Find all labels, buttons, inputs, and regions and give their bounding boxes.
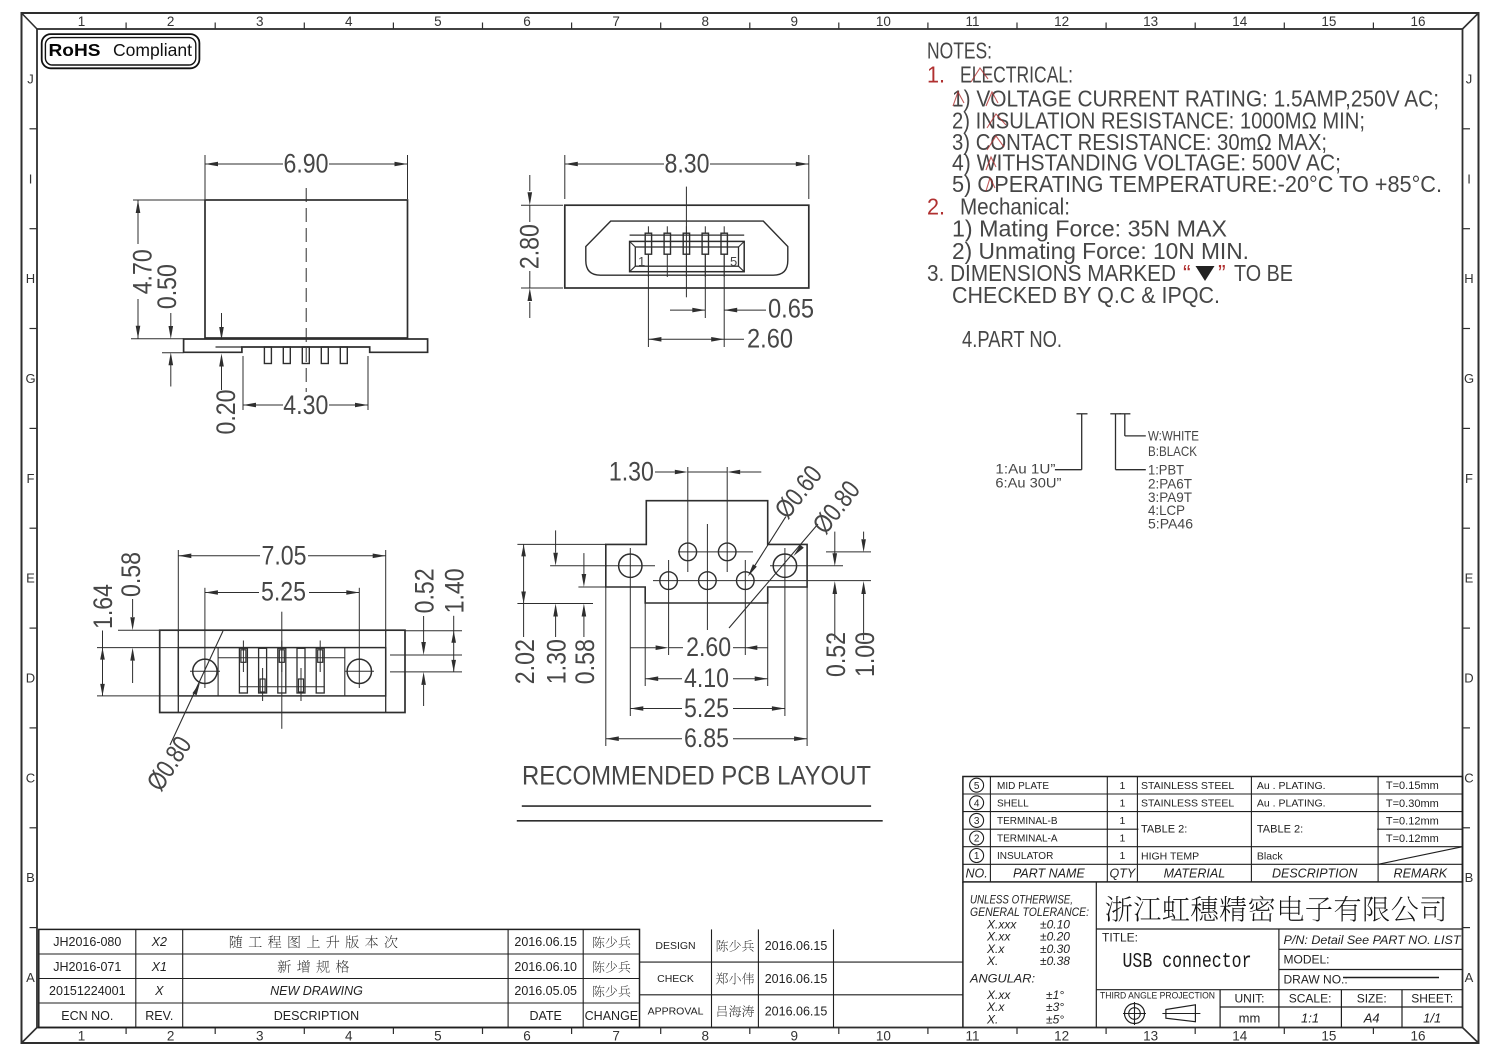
svg-text:C: C	[26, 770, 35, 785]
svg-text:NOTES:: NOTES:	[927, 37, 992, 63]
svg-text:THIRD ANGLE PROJECTION: THIRD ANGLE PROJECTION	[1100, 991, 1215, 1002]
parts table row 5 MID PLATE	[970, 778, 984, 792]
svg-text:MID PLATE: MID PLATE	[997, 781, 1049, 792]
svg-text:8: 8	[701, 1029, 709, 1044]
bottom view mounting hole centerlines	[204, 588, 206, 688]
svg-text:mm: mm	[1239, 1011, 1261, 1026]
svg-text:REV.: REV.	[145, 1009, 173, 1023]
top view tongue outer rect	[630, 241, 745, 271]
part number tree connector to material codes	[1116, 469, 1146, 471]
svg-text:5.25: 5.25	[684, 693, 729, 723]
bottom view pin cross lines	[218, 657, 345, 659]
dimension 0.58 pcb	[583, 553, 585, 574]
svg-text:1: 1	[78, 1029, 86, 1044]
svg-text:4.PART NO.: 4.PART NO.	[962, 326, 1062, 352]
svg-text:STAINLESS STEEL: STAINLESS STEEL	[1141, 798, 1234, 810]
svg-text:W:WHITE: W:WHITE	[1148, 428, 1199, 444]
dimension 1.00	[863, 532, 865, 540]
bottom view right mounting hole	[347, 659, 371, 683]
svg-text:NO.: NO.	[965, 867, 987, 881]
dimension 0.58 bottom view	[132, 599, 134, 617]
dimension 8.30 extension lines	[564, 155, 566, 199]
svg-text:MATERIAL: MATERIAL	[1164, 867, 1226, 881]
svg-text:UNIT:: UNIT:	[1235, 992, 1265, 1006]
svg-text:NEW DRAWING: NEW DRAWING	[270, 984, 363, 998]
svg-text:P/N: Detail See PART NO. LIST: P/N: Detail See PART NO. LIST	[1284, 933, 1463, 947]
svg-text:6: 6	[523, 1029, 531, 1044]
svg-text:MODEL:: MODEL:	[1284, 953, 1330, 967]
svg-text:14: 14	[1232, 14, 1248, 29]
dimension 1.64	[102, 631, 104, 696]
svg-text:X.: X.	[986, 1012, 998, 1026]
svg-text:4: 4	[345, 1029, 353, 1044]
svg-text:12: 12	[1054, 14, 1069, 29]
part number tree connector to color codes	[1125, 435, 1146, 437]
svg-text:Black: Black	[1257, 850, 1283, 862]
svg-text:G: G	[25, 371, 35, 386]
svg-text:3: 3	[256, 14, 264, 29]
pcb crosshair horizontals	[678, 551, 753, 553]
svg-text:13: 13	[1143, 14, 1158, 29]
bottom view inner side walls full height	[177, 630, 179, 712]
bottom view inner outline	[178, 648, 385, 696]
svg-text:APPROVAL: APPROVAL	[648, 1006, 704, 1018]
svg-text:0.65: 0.65	[768, 294, 814, 324]
svg-text:T=0.30mm: T=0.30mm	[1386, 798, 1439, 810]
diameter 0.80 leader pcb	[729, 524, 818, 628]
pcb crosshair verticals	[629, 548, 631, 716]
top view pins	[645, 233, 651, 254]
top view tongue inner rect	[635, 247, 738, 266]
border row ticks	[30, 128, 38, 130]
svg-text:ELECTRICAL:: ELECTRICAL:	[960, 61, 1073, 87]
svg-text:TO BE: TO BE	[1234, 260, 1293, 286]
dimension 0.52 bottom view extension lines	[390, 654, 462, 656]
svg-text:DESCRIPTION: DESCRIPTION	[1272, 867, 1358, 881]
svg-text:16: 16	[1410, 14, 1425, 29]
svg-text:11: 11	[965, 14, 979, 29]
svg-text:6:Au 30U”: 6:Au 30U”	[995, 474, 1061, 490]
pcb left extension lines	[517, 543, 606, 545]
svg-text:8: 8	[701, 14, 709, 29]
top view tongue corner bevels	[630, 241, 636, 247]
svg-text:6.90: 6.90	[284, 148, 329, 178]
pcb outline extension verticals	[644, 603, 646, 686]
svg-text:1: 1	[1119, 833, 1125, 845]
dimension 6.90 extension lines	[204, 155, 206, 199]
svg-text:1: 1	[638, 254, 645, 269]
svg-text:9: 9	[791, 14, 799, 29]
top view receptacle cavity outline	[586, 221, 788, 275]
svg-text:A4: A4	[1363, 1011, 1380, 1026]
top view shell outline	[565, 205, 809, 288]
dimension 0.20	[221, 313, 223, 327]
svg-text:6.85: 6.85	[684, 723, 729, 753]
svg-text:8.30: 8.30	[665, 148, 710, 178]
svg-text:1:1: 1:1	[1301, 1011, 1319, 1026]
parts table insulator remark diagonal	[1378, 847, 1462, 865]
svg-text:5: 5	[434, 14, 442, 29]
pcb pad holes bottom row	[660, 572, 678, 590]
diameter 0.60 leader	[751, 517, 786, 573]
svg-text:TERMINAL-A: TERMINAL-A	[997, 834, 1058, 845]
svg-text:ECN NO.: ECN NO.	[61, 1009, 113, 1023]
svg-text:2.60: 2.60	[686, 632, 731, 662]
svg-text:2.02: 2.02	[510, 639, 540, 684]
svg-text:DESCRIPTION: DESCRIPTION	[274, 1009, 359, 1023]
svg-text:1.40: 1.40	[440, 568, 470, 613]
svg-text:H: H	[1464, 271, 1473, 286]
bottom view pin cavity walls	[217, 648, 219, 696]
pcb left mounting hole	[619, 554, 642, 577]
svg-text:JH2016-080: JH2016-080	[53, 935, 121, 949]
svg-text:7: 7	[612, 1029, 620, 1044]
dimension 7.05	[178, 555, 260, 557]
svg-text:0.20: 0.20	[211, 390, 241, 435]
svg-text:Au . PLATING.: Au . PLATING.	[1257, 798, 1326, 810]
svg-text:B:BLACK: B:BLACK	[1148, 443, 1198, 459]
svg-text:2: 2	[974, 834, 980, 845]
svg-text:TABLE 2:: TABLE 2:	[1257, 824, 1303, 836]
svg-text:X.: X.	[986, 954, 998, 968]
svg-text:STAINLESS STEEL: STAINLESS STEEL	[1141, 780, 1234, 792]
svg-text:16: 16	[1410, 1029, 1425, 1044]
svg-text:3. DIMENSIONS MARKED: 3. DIMENSIONS MARKED	[927, 260, 1176, 286]
svg-text:TERMINAL-B: TERMINAL-B	[997, 816, 1058, 827]
svg-text:0.50: 0.50	[152, 264, 182, 309]
svg-text:2.60: 2.60	[747, 324, 793, 354]
dimension 0.50	[170, 313, 172, 326]
svg-text:2.80: 2.80	[515, 224, 545, 269]
svg-text:4.30: 4.30	[283, 390, 328, 420]
svg-text:4.10: 4.10	[684, 663, 729, 693]
svg-text:D: D	[1464, 671, 1473, 686]
svg-text:9: 9	[791, 1029, 799, 1044]
svg-text:I: I	[1467, 171, 1471, 186]
unit scale size sheet cells	[1278, 990, 1280, 1028]
svg-text:CHANGE: CHANGE	[585, 1009, 638, 1023]
svg-text:12: 12	[1054, 1029, 1069, 1044]
dimension 2.80	[529, 175, 531, 191]
third angle projection cone symbol	[1166, 1005, 1196, 1022]
svg-text:0.52: 0.52	[821, 632, 851, 677]
svg-text:D: D	[26, 671, 35, 686]
svg-text:0.52: 0.52	[410, 568, 440, 613]
svg-text:“: “	[1183, 260, 1191, 286]
svg-text:1: 1	[974, 851, 980, 862]
svg-text:ANGULAR:: ANGULAR:	[969, 972, 1035, 986]
top view centerline	[685, 187, 687, 298]
svg-text:X1: X1	[151, 960, 167, 974]
svg-text:2016.06.15: 2016.06.15	[765, 1005, 828, 1019]
bottom view outer outline	[160, 630, 405, 712]
svg-text:T=0.12mm: T=0.12mm	[1386, 815, 1439, 827]
svg-text:C: C	[1464, 770, 1473, 785]
svg-text:RoHS: RoHS	[49, 40, 101, 60]
dimension 1.40	[453, 616, 455, 672]
svg-text:SIZE:: SIZE:	[1357, 992, 1387, 1006]
svg-text:4: 4	[974, 798, 980, 809]
dimension 1.64 extension lines	[97, 647, 178, 649]
svg-text:Au . PLATING.: Au . PLATING.	[1257, 780, 1326, 792]
svg-text:0.58: 0.58	[116, 552, 146, 597]
dimension 7.05 extension lines	[177, 550, 179, 632]
pcb right mounting hole	[773, 554, 796, 577]
svg-text:2016.06.10: 2016.06.10	[514, 960, 577, 974]
svg-text:±0.38: ±0.38	[1040, 954, 1070, 968]
front view flange outline	[184, 339, 428, 352]
svg-text:E: E	[1465, 571, 1474, 586]
svg-text:HIGH TEMP: HIGH TEMP	[1141, 850, 1199, 862]
border column ticks	[125, 23, 127, 30]
svg-text:1.30: 1.30	[542, 639, 572, 684]
dimension 5.25 bottom view	[205, 592, 259, 594]
svg-text:11: 11	[965, 1029, 979, 1044]
svg-text:1: 1	[78, 14, 86, 29]
inspection mark triangle	[1196, 266, 1215, 281]
svg-text:JH2016-071: JH2016-071	[53, 960, 121, 974]
svg-text:15: 15	[1321, 1029, 1336, 1044]
svg-text:F: F	[1465, 471, 1473, 486]
bottom view terminal pins	[239, 648, 247, 693]
svg-text:B: B	[1465, 870, 1474, 885]
svg-text:1: 1	[1119, 815, 1125, 827]
svg-text:1: 1	[1119, 850, 1125, 862]
svg-text:2.: 2.	[927, 194, 945, 220]
svg-text:A: A	[1465, 970, 1474, 985]
svg-text:X2: X2	[151, 935, 167, 949]
pcb pad holes top row	[679, 543, 697, 561]
svg-text:±5°: ±5°	[1046, 1012, 1064, 1026]
svg-text:B: B	[26, 870, 35, 885]
svg-text:”: ”	[1218, 260, 1226, 286]
svg-text:INSULATOR: INSULATOR	[997, 851, 1053, 862]
svg-text:2016.06.15: 2016.06.15	[765, 972, 828, 986]
svg-text:USB connector: USB connector	[1123, 951, 1252, 974]
dimension 6.90	[205, 163, 283, 165]
svg-text:1: 1	[1119, 797, 1125, 809]
dimension 4.70 extension lines	[132, 199, 134, 201]
svg-text:1.64: 1.64	[88, 584, 118, 629]
svg-text:I: I	[29, 171, 33, 186]
svg-text:2016.05.05: 2016.05.05	[514, 984, 577, 998]
svg-text:SHELL: SHELL	[997, 798, 1029, 809]
svg-text:2016.06.15: 2016.06.15	[514, 935, 577, 949]
red revision scribbles over notes	[971, 68, 988, 82]
svg-text:5: 5	[730, 254, 737, 269]
dimension 0.52 bottom view	[423, 616, 425, 642]
svg-text:7.05: 7.05	[262, 541, 307, 571]
svg-text:SCALE:: SCALE:	[1289, 992, 1332, 1006]
svg-text:5.25: 5.25	[261, 577, 306, 607]
top view pin stubs above	[647, 226, 649, 233]
svg-text:J: J	[27, 71, 34, 86]
pin extension lines for pitch dimensions	[647, 254, 649, 347]
svg-text:10: 10	[876, 1029, 891, 1044]
svg-text:Compliant: Compliant	[113, 40, 192, 60]
svg-text:RECOMMENDED PCB LAYOUT: RECOMMENDED PCB LAYOUT	[522, 761, 871, 791]
svg-text:J: J	[1466, 71, 1473, 86]
svg-text:G: G	[1464, 371, 1474, 386]
svg-text:2016.06.15: 2016.06.15	[765, 939, 828, 953]
projection cell	[1096, 989, 1462, 991]
svg-text:QTY: QTY	[1110, 867, 1137, 881]
pcb layout outline	[606, 501, 807, 603]
top view contact bar line	[630, 234, 745, 236]
dimension 0.65	[670, 309, 705, 311]
title cell	[1278, 929, 1280, 990]
dimension 5.25 pcb	[630, 708, 682, 710]
company name cell	[1096, 928, 1462, 930]
front view body outline	[205, 200, 408, 338]
RoHS Compliant badge	[42, 34, 200, 68]
svg-text:1: 1	[1119, 780, 1125, 792]
company name text	[1106, 896, 1445, 922]
diameter 0.80 leader bottom view	[170, 631, 223, 745]
dimension 2.60 pcb	[630, 647, 655, 649]
svg-text:1.30: 1.30	[609, 457, 654, 487]
dimension 4.30 extension lines	[242, 356, 244, 410]
dimension 4.70	[137, 200, 139, 244]
svg-text:5: 5	[974, 781, 980, 792]
svg-text:1/1: 1/1	[1423, 1011, 1441, 1026]
third angle projection circle symbol	[1125, 1004, 1145, 1024]
svg-text:TABLE 2:: TABLE 2:	[1141, 824, 1187, 836]
border corner diagonals	[22, 13, 38, 29]
title block outline	[962, 882, 964, 1028]
dimension 6.85	[606, 738, 682, 740]
svg-text:DESIGN: DESIGN	[655, 940, 695, 952]
part number tree vertical line 1	[1081, 414, 1083, 470]
svg-text:20151224001: 20151224001	[49, 984, 126, 998]
svg-text:H: H	[26, 271, 35, 286]
svg-text:5: 5	[434, 1029, 442, 1044]
svg-text:2: 2	[167, 14, 175, 29]
svg-text:DRAW NO.:: DRAW NO.:	[1284, 973, 1348, 987]
approval table grid	[640, 961, 963, 963]
svg-text:10: 10	[876, 14, 891, 29]
caption underlines	[522, 805, 871, 807]
svg-text:0.58: 0.58	[570, 639, 600, 684]
svg-text:REMARK: REMARK	[1394, 867, 1448, 881]
part number tree connector to plating codes	[1055, 469, 1082, 471]
svg-text:E: E	[26, 571, 35, 586]
svg-text:3: 3	[974, 816, 980, 827]
dimension 4.10	[645, 678, 682, 680]
part number tree vertical line 2	[1115, 414, 1117, 470]
svg-text:7: 7	[612, 14, 620, 29]
parts table grid	[963, 777, 1463, 882]
svg-text:DATE: DATE	[529, 1009, 561, 1023]
top view pin contact lines	[647, 254, 649, 277]
svg-text:X: X	[154, 984, 164, 998]
svg-text:2: 2	[167, 1029, 175, 1044]
svg-text:T=0.15mm: T=0.15mm	[1386, 780, 1439, 792]
bottom view centerline	[281, 612, 283, 729]
svg-text:A: A	[26, 970, 35, 985]
bottom view left mounting hole	[193, 659, 217, 683]
svg-text:6: 6	[523, 14, 531, 29]
svg-text:5:PA46: 5:PA46	[1148, 516, 1193, 532]
svg-text:4: 4	[345, 14, 353, 29]
svg-text:PART NAME: PART NAME	[1013, 867, 1085, 881]
dimension 8.30	[565, 163, 664, 165]
dimension 1.30 left	[555, 530, 557, 552]
svg-text:SHEET:: SHEET:	[1411, 992, 1453, 1006]
svg-text:1.00: 1.00	[850, 632, 880, 677]
front view solder pins	[264, 347, 271, 364]
svg-text:15: 15	[1321, 14, 1336, 29]
svg-text:14: 14	[1232, 1029, 1248, 1044]
svg-text:F: F	[27, 471, 35, 486]
svg-text:T=0.12mm: T=0.12mm	[1386, 833, 1439, 845]
dimension 4.30	[243, 404, 283, 406]
part number tree vertical line 3	[1124, 414, 1126, 436]
dimension 2.02	[523, 544, 525, 603]
svg-text:CHECK: CHECK	[657, 973, 694, 985]
front view centerline	[305, 188, 307, 392]
svg-text:TITLE:: TITLE:	[1102, 931, 1138, 945]
svg-text:1.: 1.	[927, 61, 945, 87]
dimension 2.80 extension lines	[521, 204, 563, 206]
svg-text:3: 3	[256, 1029, 264, 1044]
svg-text:13: 13	[1143, 1029, 1158, 1044]
revision table grid	[39, 929, 640, 1027]
dimension 2.60	[648, 338, 724, 340]
dimension 0.52 pcb	[834, 532, 836, 554]
dimension 0.58 bottom view extension line	[118, 629, 178, 631]
